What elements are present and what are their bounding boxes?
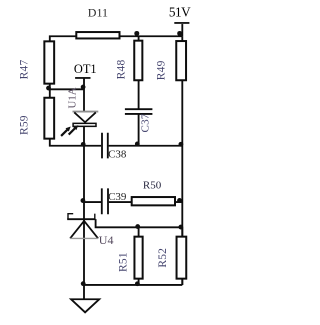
svg-text:OT1: OT1 [74, 62, 97, 76]
svg-text:R49: R49 [155, 60, 167, 80]
svg-text:D11: D11 [88, 6, 108, 20]
svg-text:U4: U4 [99, 233, 114, 247]
svg-text:R50: R50 [143, 179, 162, 191]
svg-text:R47: R47 [18, 60, 30, 80]
svg-text:C39: C39 [108, 191, 127, 203]
svg-text:C38: C38 [108, 148, 127, 160]
svg-text:R59: R59 [18, 115, 30, 135]
svg-text:U1A: U1A [67, 87, 79, 108]
svg-text:R52: R52 [157, 248, 169, 268]
svg-text:R51: R51 [117, 252, 129, 272]
svg-text:51V: 51V [169, 4, 191, 19]
svg-text:C37: C37 [139, 113, 151, 132]
svg-text:R48: R48 [115, 60, 127, 80]
